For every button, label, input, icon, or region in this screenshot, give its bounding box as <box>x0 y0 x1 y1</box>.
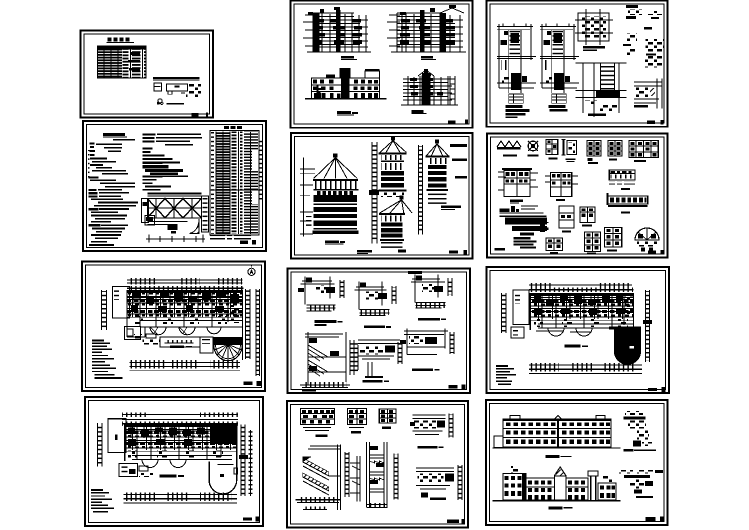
S6 mid-left big paned detail <box>498 168 538 203</box>
S7 left dim ladder <box>102 290 107 330</box>
S7 annex boxes bottom-left of plan <box>125 326 160 344</box>
S5 tall dim ladder 2 <box>419 145 423 235</box>
S4 small left margin marks <box>88 150 90 180</box>
S7 lower rooms <box>160 337 213 353</box>
S3 mid-right small details <box>623 34 664 68</box>
S10 annex boxes bottom-left <box>119 464 153 477</box>
S9 top dimension band <box>529 283 634 292</box>
S8 detail D5 bottom-center <box>358 340 402 378</box>
S6 top row detail 5 <box>587 141 601 164</box>
S3 top-right small details <box>626 5 662 29</box>
S8 detail D6 bottom-right <box>400 328 454 354</box>
S1 small symbol <box>157 99 163 105</box>
S3 title block <box>647 121 655 124</box>
S9 bottom dimension band <box>529 363 642 374</box>
S6 top row detail 3: window grid <box>546 139 558 159</box>
S3 bottom-right detail <box>634 79 662 109</box>
S3 top-center window detail <box>575 9 613 51</box>
S4 title block <box>240 241 248 245</box>
S4 left heading <box>103 133 125 136</box>
S7 center-bottom marks row <box>164 340 193 348</box>
S5 bottom-middle turret <box>379 196 412 253</box>
S10 right dim ladders <box>239 424 252 496</box>
S11 bottom-right detail <box>416 465 462 500</box>
S5 top-middle turret <box>379 137 407 198</box>
S1 dash line <box>167 103 184 105</box>
S8 title block <box>448 385 457 388</box>
S5 big turret title <box>325 241 339 244</box>
S5 title block <box>449 251 458 254</box>
sheet S6 frame (row2-right details) <box>487 134 668 258</box>
S1 small section drawing <box>153 77 201 97</box>
S3 bottom-center cross detail <box>575 63 626 117</box>
S6 top row detail 2: rosette <box>528 141 539 156</box>
S12 bottom title <box>548 507 562 510</box>
S8 detail D3 top-right <box>408 271 452 308</box>
S8 stair section D4 bottom-left <box>300 332 358 388</box>
S6 top row detail 6 <box>608 141 622 161</box>
S12 top elevation <box>493 416 621 449</box>
S11 window panel 2 <box>347 409 366 434</box>
S7 fan element bottom-right <box>213 337 242 361</box>
S6 top row detail 1: ornament <box>497 141 521 156</box>
S10 title block <box>243 517 252 520</box>
S7 bottom-left notes text <box>92 340 122 379</box>
S6 top row detail 7: wide window <box>629 141 658 162</box>
S4 bottom dimension line <box>146 235 205 243</box>
S1 title block mark <box>192 113 199 116</box>
S7 compass <box>248 265 255 275</box>
sheet S10 frame (row4-left plan) <box>85 397 263 526</box>
S11 window panel 3 <box>379 409 396 429</box>
S6 title block <box>648 250 656 253</box>
S10 center label <box>160 475 177 478</box>
S2 section 1-1 (top-left) <box>303 13 371 52</box>
S11 right stair pair <box>367 442 388 508</box>
S4 middle text block <box>143 133 203 190</box>
S4 right material table <box>210 126 262 241</box>
S6 top row detail 4 <box>562 140 577 163</box>
S5 top-right turret <box>426 140 468 210</box>
S3 wall section detail A <box>497 23 536 118</box>
S10 bottom dimension band <box>123 492 237 503</box>
S2 section 3-3 (bottom-right) <box>401 70 458 105</box>
S4 left specification text block <box>89 143 139 247</box>
S7 top dimension band <box>127 278 244 291</box>
S10 left big rectangle <box>108 419 126 453</box>
S12 top title <box>546 455 560 458</box>
S6 bottom small panels <box>559 206 574 233</box>
S6 bottom-right fan window <box>635 228 659 252</box>
S10 oval playground bottom-right <box>209 462 237 495</box>
S5 tall dim ladder 1 <box>369 142 379 244</box>
S2 title block <box>448 121 456 125</box>
S12 top-right detail cluster <box>623 411 656 451</box>
S5 bottom small title <box>357 250 372 253</box>
sheet S3 frame (top-right) <box>487 1 668 127</box>
S6 mid-right horizontal band detail <box>609 170 635 190</box>
S7 bottom dimension band <box>130 360 241 371</box>
S9 main plan body <box>530 293 634 336</box>
S9 small box left-bottom <box>511 327 524 338</box>
S10 left dim ladder <box>98 423 103 467</box>
S11 middle thin stair <box>350 456 360 502</box>
S12 bottom elevation <box>493 466 621 501</box>
S6 bottom-left roof eave section <box>499 206 548 249</box>
S7 title block <box>244 382 253 385</box>
S9 left dim ladder <box>502 293 507 333</box>
sheet S9 frame (row3-right plan) <box>487 267 670 393</box>
sheet S1 frame (top-left small) <box>81 31 214 118</box>
S9 left outline rect <box>513 290 529 324</box>
S3 wall section detail B <box>540 23 579 111</box>
S2 titles row2 <box>337 111 351 114</box>
S9 title block <box>648 388 657 391</box>
S7 main plan body <box>127 290 243 360</box>
S9 dark fan bottom-right <box>609 327 641 365</box>
S10 top dimension band <box>122 412 238 426</box>
S4 roof truss section drawing <box>141 193 208 234</box>
S6 bottom-left label <box>495 248 506 251</box>
S6 mid-center paned window <box>545 173 578 202</box>
S9 right dim ladder <box>643 290 652 362</box>
S11 top-right detail <box>410 414 453 438</box>
S2 section 2-2 (top-right) <box>387 8 466 52</box>
S10 main plan body <box>125 424 237 467</box>
S2 facade elevation (bottom-left) <box>305 68 387 100</box>
S11 big stair section <box>295 445 349 510</box>
S1 title marks <box>106 38 133 44</box>
sheet S2 frame (top-middle) <box>291 1 473 128</box>
S11 right dim ladder <box>394 454 398 500</box>
S5 big turret detail <box>300 154 358 237</box>
S9 bottom-left notes <box>496 365 516 385</box>
sheet S12 frame (row4-right elevations) <box>486 400 668 525</box>
S6 bottom row small windows <box>546 238 562 254</box>
S12 bottom-right detail <box>619 470 663 498</box>
sheet S8 frame (row3-middle details) <box>288 269 471 394</box>
S1 drawing list table <box>97 46 146 78</box>
sheet S4 frame (row2-left spec sheet) <box>83 121 266 251</box>
S8 detail D2 top-center <box>354 281 396 315</box>
S8 detail D1 top-left <box>298 277 344 311</box>
S2 titles row1 <box>341 56 354 59</box>
S6 crenellated band <box>607 193 648 214</box>
S7 left stair rectangle <box>113 287 130 318</box>
S11 title block <box>447 519 459 523</box>
sheet S11 frame (row4-middle stairs) <box>287 401 468 528</box>
S9 center label <box>565 345 581 348</box>
S10 bottom-left notes <box>91 489 114 512</box>
sheet S5 frame (row2-middle turrets) <box>291 133 473 259</box>
S11 window panel 1 <box>300 409 334 437</box>
S7 right dim ladders <box>246 289 260 376</box>
S12 title block <box>645 517 655 521</box>
sheet S7 frame (row3-left plan) <box>82 262 265 392</box>
